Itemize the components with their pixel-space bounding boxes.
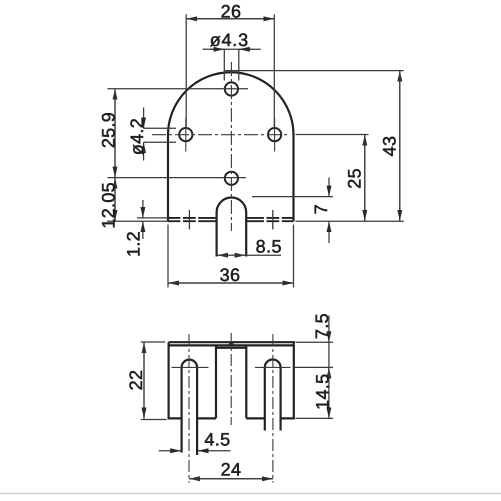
central centerline front view [230,333,232,425]
svg-text:26: 26 [221,2,242,22]
dim 25 line [364,135,366,221]
dim 7 lower arrow [328,221,330,243]
dim 25.9 line [114,89,116,178]
tab top extension line [252,196,333,198]
bottom flange double line left segment [168,218,217,221]
svg-text:7: 7 [311,204,331,214]
dim ø4.3 extension lines [224,49,239,80]
dim 14.5 line [328,367,330,418]
svg-text:8.5: 8.5 [256,236,282,256]
dim ø4.2 line upper [143,108,145,129]
right slot tick centerline on flange [272,210,274,230]
dim 1.2 upper arrow [142,200,144,218]
svg-text:36: 36 [220,265,241,285]
dim 4.5 line [159,450,181,452]
shared arrow up to arc row [328,367,330,376]
dim 12.05 line [114,178,116,221]
dim 26 dimension line [186,18,274,20]
left hole vertical tick [185,118,187,152]
hole right ø4.3 [268,128,281,141]
dim 36 extension lines [168,225,294,288]
svg-text:25.9: 25.9 [99,112,119,148]
hole center ø4.2 [225,172,238,185]
front top second line [169,344,294,346]
dim ø4.2 extension lines [144,128,176,142]
hole row extension right [296,134,369,136]
central opening verticals [216,345,246,418]
svg-text:ø4.2: ø4.2 [127,118,147,155]
hole top ø4.3 [225,82,238,95]
horizontal centerline hole row [152,134,290,136]
svg-text:12.05: 12.05 [99,182,119,229]
svg-text:24: 24 [221,459,242,479]
bottom upper line extension left [137,217,168,219]
svg-text:43: 43 [380,136,400,157]
part outline top view: dome plate [168,72,294,221]
dim 26 extension lines [186,14,274,129]
bottom extension line right [296,220,404,222]
vertical part centerline top view [230,62,232,231]
svg-text:ø4.3: ø4.3 [210,30,249,50]
right slot centerline [272,334,274,483]
svg-text:1.2: 1.2 [124,231,144,257]
svg-text:7.5: 7.5 [312,313,332,339]
right extension lines front [295,342,333,418]
dim 22 extension lines [141,342,167,420]
dim ø4.3 leader line [203,48,261,50]
center arrow on top edge [226,342,237,346]
dim 1.2 lower arrow [142,221,144,239]
bottom lower line extension left [107,220,168,222]
dim 22 line [143,342,145,418]
footer separator line [0,493,501,495]
right hole vertical tick [274,118,276,152]
left slot centerline [188,334,190,483]
dim 8.5 line [217,254,226,256]
front view outline [169,342,294,418]
central opening third line [216,347,246,349]
dim 43 line [399,71,401,221]
dim 24 line [189,478,273,480]
dim 7 upper arrow [328,178,330,197]
svg-text:25: 25 [345,168,365,189]
svg-text:14.5: 14.5 [313,374,333,410]
dim 7.5 upper arrow [328,316,330,343]
dim 36 line [168,282,294,284]
left slot front view [182,360,198,455]
bottom flange double line right segment [246,218,293,221]
svg-text:22: 22 [126,370,146,391]
top hole row extension line [108,88,249,90]
dim ø4.2 line lower [143,142,145,160]
left slot tick centerline on flange [188,210,190,230]
svg-text:4.5: 4.5 [204,430,230,450]
right slot front view [265,360,281,431]
left slot arc row line [172,366,209,368]
central tab with dome (plan) [217,198,247,257]
center hole row extension line [108,177,247,179]
hole left ø4.3 [179,128,192,141]
right slot arc row line [255,366,291,368]
dome top extension line [225,70,404,72]
